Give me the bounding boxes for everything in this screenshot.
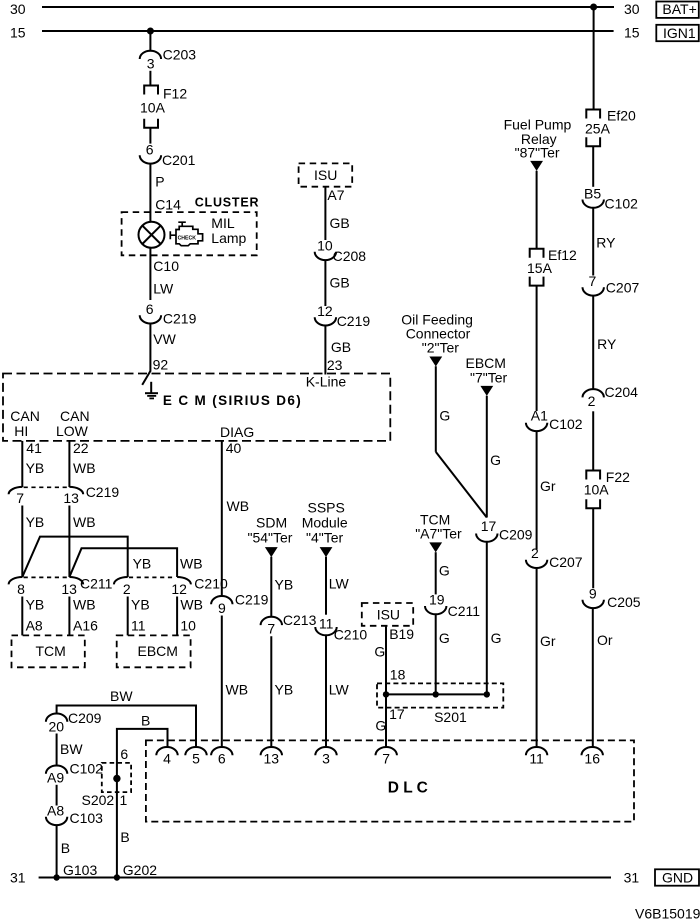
svg-text:"7"Ter: "7"Ter	[470, 370, 508, 386]
svg-text:41: 41	[26, 440, 42, 456]
svg-text:G: G	[491, 630, 502, 646]
wire A1 to C207-2, label Gr	[537, 431, 556, 549]
svg-text:YB: YB	[133, 556, 152, 572]
connector DLC pin 3	[315, 747, 336, 767]
svg-text:BW: BW	[110, 688, 133, 704]
wire C207-7 to C204, label RY	[593, 296, 617, 390]
fuse Ef20 25A	[585, 108, 636, 147]
connector C213 pin 7	[261, 612, 317, 637]
svg-text:VW: VW	[153, 331, 176, 347]
wire S201-17 to DLC pin 7, labels 17 G	[375, 694, 404, 747]
svg-text:6: 6	[120, 746, 128, 762]
svg-text:A9: A9	[47, 770, 64, 786]
wire C201 to MIL lamp, label P, label C14	[150, 164, 181, 222]
svg-text:GB: GB	[331, 339, 351, 355]
svg-text:9: 9	[218, 600, 226, 616]
svg-text:G: G	[375, 718, 386, 734]
fuse F12 10A	[140, 86, 187, 128]
wire B from S202 riser to DLC pin 4, label B	[117, 713, 168, 878]
connector DLC pin 5	[185, 747, 206, 767]
svg-text:5: 5	[192, 751, 200, 767]
connector C201 pin 6	[140, 142, 196, 168]
fuse Ef12 15A	[527, 247, 577, 286]
label MIL Lamp	[211, 215, 246, 246]
svg-text:LOW: LOW	[56, 423, 89, 439]
svg-text:A16: A16	[73, 618, 98, 634]
svg-text:WB: WB	[73, 597, 96, 613]
svg-text:G: G	[439, 408, 450, 424]
wire ISU to C208, labels A7 GB	[325, 187, 349, 240]
svg-text:B5: B5	[584, 186, 601, 202]
lamp MIL	[139, 222, 165, 248]
svg-text:2: 2	[531, 545, 539, 561]
wire pin92 bend into ECM	[142, 371, 150, 385]
svg-text:WB: WB	[180, 597, 203, 613]
ground ECM internal	[145, 382, 158, 399]
wire Ef20 to B5 C102	[592, 146, 594, 187]
svg-text:Ef20: Ef20	[607, 108, 636, 124]
connector C203 pin 3	[140, 47, 197, 72]
svg-text:15: 15	[10, 25, 26, 41]
wire A8 to G103, labels B G103	[57, 825, 98, 878]
wire C210-12 to EBCM 10, labels WB 10	[177, 597, 203, 636]
svg-text:BW: BW	[60, 741, 83, 757]
svg-text:"87"Ter: "87"Ter	[515, 145, 560, 161]
svg-text:2: 2	[588, 393, 596, 409]
connector C219 pins 7 13	[9, 484, 120, 506]
wire C204 to F22	[592, 411, 594, 470]
node S201 junction 18	[383, 691, 389, 697]
wire relay to Ef12	[536, 171, 538, 249]
svg-text:GB: GB	[330, 215, 350, 231]
svg-text:EBCM: EBCM	[138, 643, 178, 659]
svg-text:6: 6	[146, 142, 154, 158]
wire TCM-A7 to C211-19, label G	[436, 552, 450, 594]
wire ECM pin 22 CAN LOW, labels 22 WB	[69, 440, 95, 487]
svg-text:S202: S202	[82, 792, 115, 808]
node TCM box	[12, 635, 85, 667]
svg-text:C207: C207	[606, 280, 640, 296]
svg-text:6: 6	[218, 751, 226, 767]
svg-text:C10: C10	[153, 258, 179, 274]
svg-text:F22: F22	[606, 469, 630, 485]
svg-text:MIL: MIL	[211, 215, 235, 231]
node S201 box	[377, 683, 503, 725]
svg-text:17: 17	[481, 518, 497, 534]
svg-text:SSPS: SSPS	[308, 500, 345, 516]
svg-text:A1: A1	[531, 408, 548, 424]
svg-text:LW: LW	[153, 281, 174, 297]
svg-text:23: 23	[327, 357, 343, 373]
svg-text:C209: C209	[68, 710, 102, 726]
connector C219 pin 9	[211, 592, 268, 616]
svg-text:C208: C208	[333, 248, 367, 264]
icon check-engine	[170, 222, 202, 246]
svg-text:DIAG: DIAG	[220, 424, 254, 440]
wire F12 to C201	[149, 128, 151, 144]
svg-text:40: 40	[226, 440, 242, 456]
connector C219 pin 6	[140, 301, 197, 327]
svg-text:C210: C210	[194, 576, 228, 592]
svg-text:"2"Ter: "2"Ter	[422, 340, 460, 356]
svg-text:7: 7	[267, 621, 275, 637]
svg-text:D L C: D L C	[388, 780, 428, 797]
connector C102 pin A9	[46, 761, 103, 786]
svg-text:YB: YB	[26, 514, 45, 530]
svg-text:22: 22	[73, 440, 89, 456]
wire EBCM-7 to C209-17, label G	[487, 396, 501, 518]
wire ISU B19 to S201-18, labels B19 G 18	[374, 626, 414, 695]
wire rail 31	[39, 877, 611, 879]
svg-text:20: 20	[49, 719, 65, 735]
svg-text:2: 2	[123, 581, 131, 597]
svg-text:ISU: ISU	[314, 167, 337, 183]
svg-text:CAN: CAN	[60, 408, 90, 424]
svg-text:C219: C219	[163, 311, 197, 327]
svg-text:"4"Ter: "4"Ter	[306, 530, 344, 546]
svg-text:12: 12	[171, 581, 187, 597]
wire C219-7 to C211-8, label YB	[22, 506, 44, 578]
svg-text:C207: C207	[549, 554, 583, 570]
svg-text:B: B	[61, 840, 70, 856]
svg-text:C201: C201	[162, 152, 196, 168]
svg-text:17: 17	[389, 706, 405, 722]
wire ECM pin 41 CAN HI, labels 41 YB	[22, 440, 44, 487]
svg-text:HI: HI	[14, 423, 28, 439]
wire ECM DIAG pin 40 to C219-9, labels 40 WB	[222, 440, 249, 596]
svg-text:12: 12	[317, 303, 333, 319]
svg-text:B: B	[141, 713, 150, 729]
node CLUSTER box	[122, 196, 260, 256]
svg-text:19: 19	[429, 591, 445, 607]
node G103 junction	[53, 874, 59, 880]
svg-text:C210: C210	[334, 627, 368, 643]
connector DLC pin 6	[211, 747, 232, 767]
node DLC box	[146, 740, 634, 821]
svg-text:C103: C103	[70, 810, 104, 826]
svg-text:ISU: ISU	[377, 607, 400, 623]
wire BW from C209-20 to DLC pin 5, label BW	[57, 688, 196, 747]
svg-text:25A: 25A	[585, 121, 611, 137]
connector C207 pin 2	[526, 545, 583, 570]
svg-text:C205: C205	[607, 594, 641, 610]
svg-text:C102: C102	[605, 196, 639, 212]
node IGN1 box	[656, 25, 699, 41]
svg-text:11: 11	[131, 618, 146, 634]
svg-text:TCM: TCM	[36, 643, 66, 659]
svg-text:7: 7	[382, 751, 390, 767]
connector DLC pin 13	[261, 747, 282, 767]
svg-text:13: 13	[61, 581, 77, 597]
svg-text:30: 30	[10, 1, 26, 17]
svg-text:10A: 10A	[584, 482, 610, 498]
svg-text:C219: C219	[337, 313, 371, 329]
wire C210-11 to DLC pin 3, label LW	[326, 635, 350, 747]
svg-text:3: 3	[322, 751, 330, 767]
svg-text:10: 10	[180, 618, 196, 634]
svg-text:15A: 15A	[527, 260, 553, 276]
node EBCM terminal 7	[466, 355, 508, 396]
svg-text:C209: C209	[499, 527, 533, 543]
connector C210 pins 2 12	[114, 576, 228, 598]
svg-text:WB: WB	[226, 682, 249, 698]
wire C211-8 to TCM A8, labels YB A8	[22, 597, 44, 636]
node TCM terminal A7	[415, 512, 462, 553]
svg-text:Gr: Gr	[540, 633, 556, 649]
svg-text:"A7"Ter: "A7"Ter	[415, 526, 462, 542]
wire MIL lamp to C219, labels C10 LW	[150, 248, 179, 300]
svg-text:B19: B19	[389, 626, 414, 642]
connector C207 pin 7	[583, 273, 640, 296]
wire SDM to C213, label YB	[271, 557, 293, 617]
connector C209 pin 17	[476, 518, 533, 543]
svg-text:1: 1	[120, 792, 128, 808]
wire C207-2 to DLC pin 11, label Gr	[537, 568, 556, 747]
wire rail 30	[42, 6, 614, 8]
connector DLC pin 7	[376, 747, 397, 767]
svg-text:11: 11	[529, 751, 544, 767]
node junction on rail 30	[590, 4, 597, 11]
wire C213 to DLC pin 13, label YB	[271, 636, 293, 747]
svg-text:C102: C102	[70, 761, 104, 777]
svg-text:Module: Module	[302, 515, 348, 531]
node ISU box lower	[362, 603, 413, 626]
svg-text:CAN: CAN	[10, 408, 40, 424]
wire C219-9 to DLC pin 6, label WB	[222, 616, 248, 748]
connector C210 pin 11	[315, 616, 367, 643]
svg-text:"54"Ter: "54"Ter	[248, 530, 293, 546]
svg-text:10A: 10A	[140, 100, 166, 116]
svg-text:10: 10	[317, 238, 333, 254]
svg-text:G103: G103	[63, 862, 97, 878]
node BAT+ box	[656, 1, 699, 18]
svg-text:C219: C219	[235, 592, 269, 608]
svg-text:16: 16	[584, 751, 600, 767]
connector C211 pins 8 13	[9, 576, 113, 598]
connector C103 pin A8	[46, 803, 103, 827]
svg-text:RY: RY	[597, 336, 617, 352]
svg-text:C14: C14	[155, 197, 181, 213]
svg-text:GND: GND	[662, 870, 693, 886]
wire C219-12 to ECM K-Line, labels GB 23	[325, 326, 351, 375]
wire C211-13 to TCM A16, labels WB A16	[69, 597, 98, 636]
connector DLC pin 11	[526, 747, 547, 767]
wire S201 bus	[386, 693, 487, 695]
svg-text:WB: WB	[73, 514, 96, 530]
wire SSPS to C210-11, label LW	[326, 557, 350, 615]
wire A9 to A8	[56, 785, 58, 806]
connector C209 pin 20	[46, 710, 102, 735]
connector C102 pin B5	[583, 186, 639, 212]
svg-text:7: 7	[589, 273, 597, 289]
svg-text:LW: LW	[329, 682, 350, 698]
svg-text:7: 7	[16, 490, 24, 506]
fuse F22 10A	[584, 469, 630, 508]
svg-text:3: 3	[147, 55, 155, 71]
node Oil Feeding Connector terminal	[401, 312, 473, 367]
connector C204 pin 2	[583, 384, 639, 409]
wire crossover CAN HI to C210-2	[22, 537, 127, 577]
svg-text:G: G	[439, 630, 450, 646]
connector C208 pin 10	[315, 238, 367, 265]
svg-text:V6B15019: V6B15019	[635, 906, 700, 921]
svg-text:G: G	[490, 452, 501, 468]
svg-text:Or: Or	[597, 632, 613, 648]
wire rail 15	[42, 30, 614, 32]
wire rail30 to Ef20	[593, 7, 595, 110]
node EBCM box	[117, 635, 191, 667]
wire F22 to C205	[592, 508, 594, 588]
svg-text:LW: LW	[329, 576, 350, 592]
wire C219-6 to ECM, labels VW 92	[150, 324, 176, 373]
svg-text:C203: C203	[163, 47, 197, 63]
node S202 box	[82, 763, 132, 808]
svg-text:SDM: SDM	[256, 515, 287, 531]
svg-text:WB: WB	[227, 498, 250, 514]
svg-text:K-Line: K-Line	[306, 374, 347, 390]
connector C205 pin 9	[583, 585, 641, 610]
svg-text:C211: C211	[448, 603, 481, 619]
svg-text:B: B	[120, 829, 129, 845]
node ISU box top	[299, 163, 353, 186]
svg-text:A8: A8	[26, 618, 43, 634]
svg-text:YB: YB	[131, 597, 150, 613]
svg-text:RY: RY	[596, 235, 616, 251]
node S202 junction	[113, 775, 120, 782]
svg-text:30: 30	[624, 1, 640, 17]
node junction on rail 15	[147, 28, 154, 35]
svg-text:8: 8	[17, 581, 25, 597]
node SDM terminal	[248, 515, 293, 558]
node SSPS Module terminal	[302, 500, 348, 558]
svg-text:31: 31	[10, 870, 26, 886]
svg-text:A7: A7	[327, 187, 344, 203]
wire C209-20 to A9 C102, label BW	[57, 734, 84, 766]
svg-text:Lamp: Lamp	[211, 230, 246, 246]
svg-text:CHECK: CHECK	[178, 235, 197, 241]
svg-text:A8: A8	[47, 803, 64, 819]
wire rail15 to C203	[149, 31, 151, 51]
svg-text:15: 15	[624, 25, 640, 41]
svg-text:WB: WB	[73, 460, 96, 476]
wire crossover CAN LOW to C210-12	[69, 548, 177, 577]
svg-text:E C M (SIRIUS D6): E C M (SIRIUS D6)	[163, 393, 302, 408]
wire B5 to C207-7, label RY	[593, 208, 616, 276]
svg-text:4: 4	[163, 751, 171, 767]
node S201 junction 16	[484, 691, 490, 697]
svg-text:IGN1: IGN1	[663, 25, 696, 41]
svg-text:13: 13	[63, 490, 79, 506]
svg-text:WB: WB	[180, 556, 203, 572]
node G202 junction	[114, 874, 120, 880]
connector DLC pin 4	[156, 747, 177, 767]
svg-text:YB: YB	[275, 682, 294, 698]
connector C102 pin A1	[526, 408, 583, 433]
svg-text:C102: C102	[549, 416, 583, 432]
wire C211-19 to S201-19, label G	[436, 614, 450, 694]
svg-text:S201: S201	[434, 709, 467, 725]
svg-text:F12: F12	[163, 86, 187, 102]
node Fuel Pump Relay terminal	[504, 117, 572, 171]
wire C219-13 to C211-13, label WB	[69, 506, 95, 578]
svg-text:31: 31	[624, 870, 640, 886]
svg-text:C204: C204	[605, 384, 639, 400]
svg-text:18: 18	[390, 667, 406, 683]
wire Ef12 to A1 C102	[536, 286, 538, 411]
connector C219 pin 12	[315, 303, 371, 329]
svg-text:92: 92	[153, 357, 169, 373]
svg-text:9: 9	[589, 585, 597, 601]
svg-text:C211: C211	[80, 576, 113, 592]
svg-text:C219: C219	[86, 484, 120, 500]
svg-text:G: G	[374, 644, 385, 660]
svg-text:G: G	[439, 563, 450, 579]
svg-text:6: 6	[146, 301, 154, 317]
svg-text:CLUSTER: CLUSTER	[195, 196, 260, 210]
wire C205 to DLC pin 16, label Or	[593, 608, 613, 747]
node ECM box	[3, 374, 390, 441]
svg-text:YB: YB	[26, 597, 45, 613]
wire C210-2 to EBCM 11, labels YB 11	[128, 597, 150, 636]
connector C211 pin 19	[425, 591, 480, 619]
svg-text:P: P	[155, 174, 164, 190]
svg-text:YB: YB	[275, 577, 294, 593]
node GND box	[655, 869, 699, 885]
wire diagonal Oil to C209-17	[436, 452, 487, 518]
svg-text:GB: GB	[330, 275, 350, 291]
wire C209-17 to S201-16, label G	[487, 542, 502, 695]
svg-text:C213: C213	[283, 612, 317, 628]
svg-text:13: 13	[264, 751, 280, 767]
node S201 junction 19	[433, 691, 439, 697]
svg-text:G202: G202	[123, 862, 157, 878]
svg-text:Gr: Gr	[540, 478, 556, 494]
svg-text:11: 11	[319, 616, 334, 632]
connector DLC pin 16	[582, 747, 603, 767]
wire Oil connector to junction, label G	[436, 366, 450, 452]
svg-text:BAT+: BAT+	[662, 1, 696, 17]
svg-text:YB: YB	[26, 460, 45, 476]
svg-text:Ef12: Ef12	[548, 247, 577, 263]
wire C208 to C219-12, label GB	[325, 260, 349, 306]
wire C203 to F12	[149, 71, 151, 86]
